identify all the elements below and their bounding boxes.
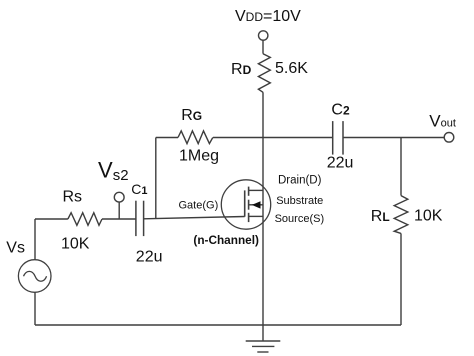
svg-text:1Meg: 1Meg <box>179 147 219 164</box>
svg-text:10K: 10K <box>414 208 443 225</box>
svg-text:Source(S): Source(S) <box>275 213 325 225</box>
svg-text:C2: C2 <box>331 102 350 119</box>
svg-text:RD: RD <box>231 61 252 78</box>
svg-text:Rs: Rs <box>63 188 83 205</box>
svg-text:5.6K: 5.6K <box>275 60 308 77</box>
svg-text:Drain(D): Drain(D) <box>278 174 322 186</box>
svg-text:Vs2: Vs2 <box>98 157 129 184</box>
svg-text:C1: C1 <box>131 181 147 197</box>
svg-text:Vout: Vout <box>429 112 456 131</box>
svg-text:RL: RL <box>371 208 390 225</box>
svg-text:Vs: Vs <box>6 240 25 257</box>
svg-text:VDD=10V: VDD=10V <box>235 8 301 25</box>
svg-text:Substrate: Substrate <box>276 195 323 207</box>
svg-text:22u: 22u <box>327 155 354 172</box>
svg-text:22u: 22u <box>136 249 163 266</box>
svg-text:10K: 10K <box>61 235 90 252</box>
svg-text:(n-Channel): (n-Channel) <box>193 233 259 247</box>
svg-text:RG: RG <box>181 107 202 124</box>
svg-text:Gate(G): Gate(G) <box>179 199 219 211</box>
